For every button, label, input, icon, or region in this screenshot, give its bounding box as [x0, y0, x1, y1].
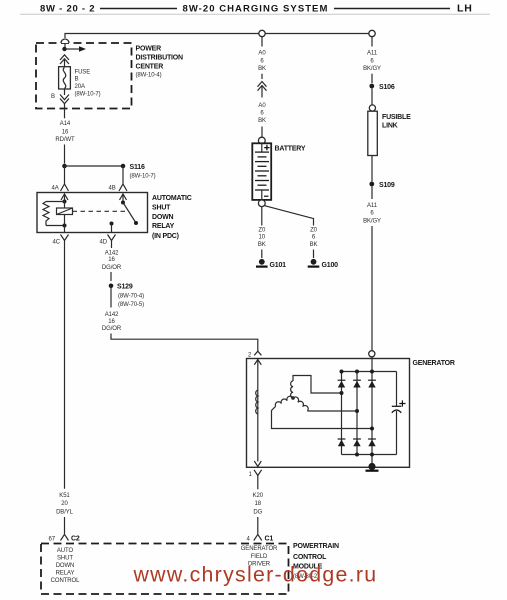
svg-text:4A: 4A	[52, 186, 59, 192]
svg-text:A142: A142	[105, 312, 119, 318]
svg-text:RELAY: RELAY	[56, 570, 75, 576]
svg-text:FIELD: FIELD	[251, 554, 268, 560]
svg-text:POWER: POWER	[136, 46, 162, 53]
svg-text:BK/GY: BK/GY	[363, 219, 381, 225]
svg-text:S109: S109	[379, 182, 395, 189]
svg-text:20A: 20A	[75, 84, 85, 90]
svg-text:4B: 4B	[109, 186, 116, 192]
svg-text:AUTO: AUTO	[57, 548, 74, 554]
svg-text:DG/OR: DG/OR	[102, 265, 122, 271]
svg-text:DISTRIBUTION: DISTRIBUTION	[136, 55, 184, 62]
svg-text:DG: DG	[253, 510, 262, 516]
svg-text:SHUT: SHUT	[152, 204, 171, 211]
svg-text:67: 67	[49, 537, 56, 543]
svg-text:4: 4	[247, 537, 251, 543]
svg-text:A142: A142	[105, 251, 119, 257]
svg-text:A11: A11	[367, 50, 378, 56]
svg-text:GENERATOR: GENERATOR	[413, 360, 455, 367]
svg-text:6: 6	[260, 59, 264, 65]
svg-text:4D: 4D	[100, 240, 108, 246]
svg-text:6: 6	[370, 59, 374, 65]
svg-text:(8W-10-4): (8W-10-4)	[136, 73, 162, 79]
svg-text:DB/YL: DB/YL	[56, 510, 74, 516]
svg-text:K51: K51	[59, 493, 70, 499]
svg-text:BK: BK	[310, 242, 318, 248]
svg-text:LINK: LINK	[382, 123, 398, 130]
svg-text:BK: BK	[258, 118, 266, 124]
svg-text:6: 6	[312, 235, 316, 241]
svg-text:1: 1	[249, 472, 253, 478]
svg-text:CONTROL: CONTROL	[293, 554, 327, 561]
svg-text:A0: A0	[258, 103, 266, 109]
svg-text:S106: S106	[379, 84, 395, 91]
svg-text:BK/GY: BK/GY	[363, 66, 381, 72]
svg-text:8W - 20 - 2: 8W - 20 - 2	[40, 4, 95, 15]
svg-text:RD/WT: RD/WT	[55, 137, 75, 143]
svg-text:CENTER: CENTER	[136, 64, 164, 71]
svg-text:(8W-70-5): (8W-70-5)	[118, 302, 144, 308]
svg-text:Z0: Z0	[258, 228, 266, 234]
svg-text:A11: A11	[367, 203, 378, 209]
svg-text:www.chrysler-dodge.ru: www.chrysler-dodge.ru	[133, 562, 378, 586]
svg-text:BATTERY: BATTERY	[275, 146, 306, 153]
svg-text:BK: BK	[258, 242, 266, 248]
svg-text:C1: C1	[265, 536, 274, 543]
svg-text:A0: A0	[258, 50, 266, 56]
svg-text:CONTROL: CONTROL	[51, 578, 80, 584]
svg-text:20: 20	[61, 501, 68, 507]
svg-text:G101: G101	[270, 262, 287, 269]
svg-text:8W-20 CHARGING SYSTEM: 8W-20 CHARGING SYSTEM	[183, 4, 329, 15]
svg-text:B: B	[75, 77, 79, 83]
svg-text:(8W-10-7): (8W-10-7)	[75, 92, 101, 98]
svg-text:A14: A14	[60, 121, 71, 127]
svg-text:POWERTRAIN: POWERTRAIN	[293, 543, 339, 550]
svg-text:DOWN: DOWN	[152, 214, 174, 221]
svg-text:DOWN: DOWN	[56, 563, 75, 569]
svg-text:6: 6	[260, 111, 264, 117]
svg-text:16: 16	[108, 319, 115, 325]
svg-text:(8W-70-4): (8W-70-4)	[118, 294, 144, 300]
svg-text:2: 2	[248, 353, 252, 359]
svg-text:AUTOMATIC: AUTOMATIC	[152, 195, 192, 202]
svg-text:18: 18	[255, 501, 262, 507]
svg-text:S129: S129	[117, 283, 133, 290]
svg-text:G100: G100	[322, 262, 339, 269]
svg-text:K20: K20	[253, 493, 264, 499]
svg-text:16: 16	[108, 257, 115, 263]
svg-text:(8W-10-7): (8W-10-7)	[130, 173, 156, 179]
svg-text:B: B	[51, 94, 55, 100]
svg-text:BK: BK	[258, 66, 266, 72]
svg-text:LH: LH	[457, 3, 473, 15]
svg-text:DG/OR: DG/OR	[102, 326, 122, 332]
svg-text:16: 16	[62, 130, 69, 136]
svg-text:6: 6	[370, 211, 374, 217]
svg-text:4C: 4C	[53, 240, 61, 246]
svg-text:RELAY: RELAY	[152, 223, 175, 230]
svg-text:GENERATOR: GENERATOR	[241, 546, 278, 552]
svg-text:FUSE: FUSE	[75, 70, 91, 76]
svg-text:SHUT: SHUT	[57, 555, 73, 561]
svg-text:(IN PDC): (IN PDC)	[152, 233, 179, 240]
svg-text:S116: S116	[130, 164, 145, 171]
svg-text:C2: C2	[71, 536, 80, 543]
svg-text:Z0: Z0	[310, 228, 318, 234]
svg-text:10: 10	[259, 235, 266, 241]
svg-text:FUSIBLE: FUSIBLE	[382, 114, 411, 121]
